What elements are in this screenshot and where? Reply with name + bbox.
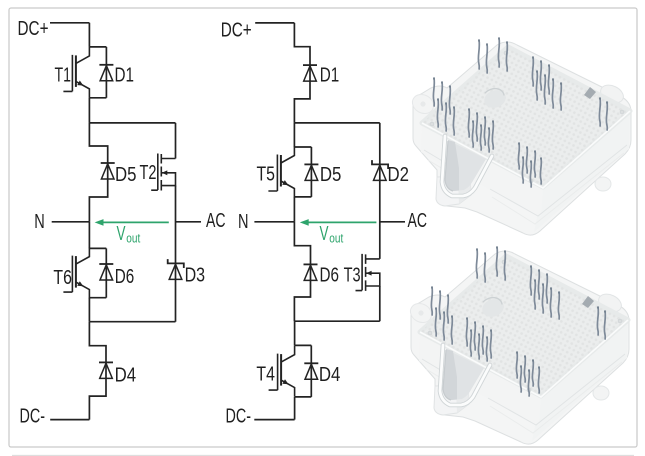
wire right branch upper (circuit 1)	[175, 123, 177, 159]
svg-text:AC: AC	[206, 209, 226, 232]
svg-text:V: V	[320, 223, 329, 245]
diode D6 (circuit 2)	[304, 264, 318, 280]
wire DC- lead (circuit 2)	[254, 419, 294, 421]
diode D4 (circuit 1)	[99, 362, 113, 378]
wire D6 branch (circuit 1)	[105, 248, 107, 297]
wire T5/D5 bottom bar	[294, 196, 311, 198]
svg-text:T1: T1	[55, 64, 72, 87]
wire T5 emitter to N rail (circuit 2)	[293, 197, 295, 222]
transistor T6 (IGBT)	[63, 248, 89, 299]
wire T6/D6 bottom bar	[89, 297, 106, 299]
transistor T5 (IGBT)	[268, 147, 294, 198]
wire N rail to T6 collector	[88, 222, 90, 249]
svg-text:D1: D1	[115, 64, 135, 87]
svg-text:DC-: DC-	[20, 404, 46, 427]
wire join bar (circuit 1)	[89, 321, 175, 323]
wire mid bar to T5 collector	[293, 123, 295, 147]
transistor T3 (MOSFET)	[356, 254, 380, 291]
diode D3 (zener style)	[168, 259, 184, 279]
wire right rail through D2 and AC to T3 drain (circuit 2)	[379, 123, 381, 259]
diode D4 (circuit 2)	[304, 363, 318, 379]
svg-text:D5: D5	[115, 163, 137, 186]
wire T4 emitter to DC- rail (circuit 2)	[294, 397, 296, 420]
transistor T4 (IGBT)	[269, 346, 295, 397]
wire N lead (circuit 2)	[254, 221, 294, 223]
svg-text:D6: D6	[320, 264, 340, 287]
wire AC lead (circuit 2)	[380, 221, 405, 223]
svg-text:D1: D1	[320, 64, 340, 87]
svg-text:AC: AC	[408, 209, 428, 232]
svg-text:D3: D3	[185, 263, 206, 286]
wire N rail through D6 jog to join bar (circuit 2)	[294, 222, 310, 321]
wire T6/D6 top bar	[89, 247, 106, 249]
wire AC lead (circuit 1)	[176, 221, 202, 223]
svg-text:D6: D6	[115, 265, 135, 288]
diode D6 (circuit 1)	[99, 264, 113, 280]
diode D2 (zener style)	[372, 160, 388, 180]
wire T4/D4 top bar	[295, 344, 312, 346]
transistor T1 (IGBT)	[63, 47, 89, 98]
wire T1/D1 top bar	[89, 46, 106, 48]
wire D5 branch (circuit 2)	[310, 147, 312, 197]
wire D4 branch (circuit 2)	[310, 345, 312, 397]
power module render (top)	[409, 38, 631, 235]
svg-text:D5: D5	[320, 163, 342, 186]
svg-text:N: N	[238, 210, 249, 233]
wire N lead (circuit 1)	[52, 221, 90, 223]
svg-text:DC+: DC+	[18, 17, 49, 40]
wire left clamp branch through D5 to N rail	[89, 123, 107, 222]
wire T5/D5 top bar	[294, 146, 311, 148]
wire T1 emitter to mid bar	[88, 98, 90, 123]
wire DC- lead (circuit 1)	[50, 419, 89, 421]
wire join bar (circuit 2)	[294, 320, 379, 322]
wire mid horizontal bar (circuit 2)	[294, 122, 379, 124]
svg-text:out: out	[126, 230, 140, 245]
wire mid horizontal bar (circuit 1)	[89, 122, 175, 124]
svg-text:T6: T6	[53, 266, 72, 289]
wire T6 emitter to join bar	[88, 298, 90, 322]
transistor T2 (MOSFET)	[151, 154, 175, 191]
diode D5 (circuit 2)	[304, 164, 318, 180]
wire DC+ lead (circuit 2)	[255, 22, 294, 24]
wire DC+ rail down to T1 collector	[88, 23, 90, 47]
svg-text:out: out	[329, 230, 343, 245]
svg-text:D4: D4	[115, 364, 137, 387]
wire T4/D4 bottom bar	[295, 396, 312, 398]
svg-text:D4: D4	[319, 363, 341, 386]
svg-text:T3: T3	[344, 264, 361, 287]
diode D1 (circuit 1)	[99, 65, 113, 81]
svg-text:DC+: DC+	[221, 19, 252, 42]
wire D1 branch	[105, 47, 107, 98]
svg-text:T4: T4	[256, 362, 275, 385]
wire join bar to T4 collector	[294, 321, 296, 345]
wire T3 source to join bar (circuit 2)	[379, 286, 381, 321]
Vout arrow (circuit 2)	[300, 219, 377, 226]
svg-text:T5: T5	[257, 163, 276, 186]
wire right branch lower through AC node and D3 to join bar	[175, 186, 177, 322]
wire T1/D1 bottom bar	[89, 97, 106, 99]
svg-text:N: N	[34, 210, 45, 233]
svg-text:V: V	[117, 223, 126, 245]
svg-text:D2: D2	[388, 163, 410, 186]
svg-text:T2: T2	[140, 161, 157, 184]
svg-text:DC-: DC-	[226, 404, 252, 427]
diode D5 (circuit 1)	[101, 163, 115, 179]
wire join to D4 to DC- rail (circuit 1)	[89, 322, 106, 420]
diode D1 (circuit 2)	[303, 65, 317, 81]
power module render (bottom)	[407, 247, 629, 444]
wire DC+ lead (circuit 1)	[50, 22, 89, 24]
wire DC+ rail through D1 jog to mid bar (circuit 2)	[294, 23, 310, 123]
Vout arrow (circuit 1)	[95, 219, 169, 226]
